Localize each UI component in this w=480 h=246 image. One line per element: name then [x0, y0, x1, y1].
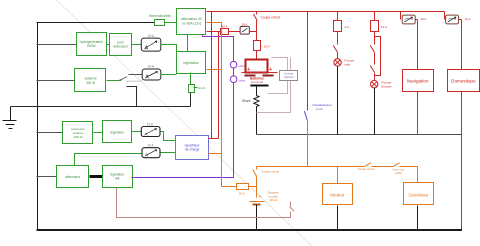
svg-text:douche: douche: [382, 84, 392, 88]
voltmeter V2: [230, 76, 246, 83]
charger box: [57, 166, 89, 188]
svg-text:10 A: 10 A: [465, 17, 471, 21]
fuse 10A battery: [254, 41, 270, 61]
svg-text:40 A: 40 A: [221, 24, 227, 28]
relay double switch shower pump: [370, 32, 380, 81]
svg-text:90 ah: 90 ah: [270, 198, 278, 202]
wire domestique negative: [461, 92, 463, 230]
ground: [3, 107, 17, 129]
rectifier box: [110, 34, 132, 56]
panel meter navigation: [401, 12, 427, 24]
fuse 10A shower pump: [371, 12, 388, 32]
voltmeter V1: [230, 61, 246, 68]
wire ground bus: [11, 87, 191, 107]
wire monitor sense line (pink): [117, 188, 295, 218]
switch coupe-circuit engine battery: [253, 167, 280, 198]
battery service bank: [242, 60, 278, 88]
wire black feed charger: [37, 176, 57, 178]
svg-text:wifi: wifi: [115, 177, 120, 181]
moteur box: [323, 184, 353, 205]
wire alternator to regulator: [187, 35, 189, 52]
svg-text:régulateur: régulateur: [183, 61, 199, 65]
switch inter guindeau: [393, 163, 405, 175]
wire moteur negative: [337, 206, 339, 230]
svg-text:redresseur: redresseur: [113, 45, 129, 49]
svg-text:à clé: à clé: [316, 107, 323, 111]
svg-text:Navigation: Navigation: [407, 79, 429, 84]
svg-text:voltm.: voltm.: [239, 79, 247, 83]
shunt resistor: [242, 86, 259, 135]
svg-text:200 W: 200 W: [74, 135, 83, 139]
wire A1 to regulator: [161, 45, 177, 52]
svg-text:de charge: de charge: [185, 148, 200, 152]
panel meter domestique: [445, 12, 471, 24]
wire negative bus: [257, 134, 462, 136]
svg-text:10 A: 10 A: [264, 44, 270, 48]
lamp pompe de cale: [334, 59, 355, 67]
watermark diagonal: [57, 0, 312, 246]
wire moteur drop: [337, 167, 339, 184]
ammeter A3: [141, 122, 160, 136]
svg-text:alternateur: alternateur: [65, 175, 81, 179]
wire orange engine bus: [257, 167, 418, 183]
wire orange alternator to engine battery: [207, 23, 222, 187]
wire green riser charger to A4: [75, 154, 143, 166]
svg-text:Domestique: Domestique: [451, 79, 476, 84]
wire rectifier to ammeter A1: [132, 44, 142, 46]
ammeter A2: [142, 65, 161, 81]
svg-text:10 A: 10 A: [147, 144, 154, 148]
svg-text:Coupe-circuit: Coupe-circuit: [262, 169, 280, 173]
alternator U1: [177, 9, 206, 35]
shunt (green) below regulator: [189, 73, 206, 107]
svg-text:600W: 600W: [87, 44, 95, 48]
switch wind turbine: [107, 75, 143, 83]
fuse 50A engine: [222, 184, 257, 196]
svg-text:tout ou rien: tout ou rien: [127, 79, 142, 83]
wind turbine box: [75, 69, 106, 92]
svg-text:40 A: 40 A: [148, 65, 155, 69]
wire lamp2 to negative bus: [374, 88, 376, 135]
svg-text:+: +: [259, 194, 262, 199]
svg-text:Coupe circuit: Coupe circuit: [358, 167, 375, 171]
fuse thermofusible: [149, 14, 171, 25]
wire hydro to rectifier: [107, 44, 110, 46]
wire battery positive drop: [256, 21, 258, 41]
switch coupe-circuit service: [253, 12, 280, 21]
regulator box (top): [177, 52, 206, 74]
svg-text:Moteur: Moteur: [330, 193, 345, 198]
fuse 40A: [221, 24, 241, 34]
ammeter A4: [142, 144, 160, 158]
thick link charger to monitor: [90, 175, 103, 178]
bornier batterie box: [257, 58, 298, 113]
wire solar to regulator2: [94, 132, 103, 134]
svg-text:50 A: 50 A: [239, 192, 245, 196]
solar regulator box: [103, 121, 132, 143]
watt meter box: [240, 23, 256, 35]
solar panel box: [63, 122, 93, 144]
battery engine: [250, 191, 280, 205]
switch parallelisation: [304, 12, 332, 167]
wire navigation negative: [417, 92, 419, 135]
wire red riser bus to distributor: [209, 12, 219, 139]
fuse 4A pump: [334, 12, 349, 32]
svg-text:Coupe-circuit: Coupe-circuit: [261, 15, 281, 19]
svg-text:300 W: 300 W: [86, 81, 95, 85]
wire to navigation box: [417, 20, 419, 70]
hydrogenerator box: [77, 33, 107, 56]
navigation box: [403, 70, 434, 92]
wire fuse to alternator: [165, 22, 177, 24]
svg-text:Shunt: Shunt: [242, 99, 250, 103]
svg-text:cale: cale: [345, 63, 351, 67]
svg-text:batterie: batterie: [284, 75, 294, 79]
wire reg2 to ammeter A3: [132, 131, 142, 133]
wire A3 to distributor box: [161, 132, 176, 141]
distributor (repartiteur) box U2: [176, 136, 209, 160]
svg-text:thermofusible: thermofusible: [149, 14, 171, 18]
wire A2 to regulator: [161, 74, 177, 76]
wire guindeau negative: [417, 206, 419, 230]
guindeau box: [404, 183, 434, 205]
ammeter A1: [141, 34, 161, 52]
wire black feed wind turbine: [37, 80, 75, 82]
svg-text:Guindeau: Guindeau: [408, 192, 428, 197]
svg-text:alternateur 40: alternateur 40: [181, 17, 202, 21]
wire black feed solar: [37, 132, 63, 134]
svg-text:10 A: 10 A: [381, 25, 387, 29]
switch pompe cale: [333, 32, 337, 59]
svg-text:répartiteur: répartiteur: [185, 143, 201, 147]
lamp pompe douche: [371, 81, 392, 89]
svg-text:10 A: 10 A: [421, 17, 427, 21]
wire black feed hydro: [37, 44, 77, 46]
domestique box: [448, 70, 480, 92]
svg-text:10 A: 10 A: [147, 122, 154, 126]
wire ground loop frame (left border, top, bottom): [37, 23, 463, 231]
wire purple voltmeter line: [132, 35, 234, 178]
svg-text:shunt: shunt: [198, 86, 206, 90]
svg-text:+: +: [269, 67, 272, 73]
svg-text:100A: 100A: [395, 171, 402, 175]
svg-text:ou 60A (12v): ou 60A (12v): [182, 22, 201, 26]
wire A4 to distributor box: [161, 152, 176, 154]
battery monitor box: [103, 166, 133, 188]
svg-text:4 A: 4 A: [345, 25, 349, 29]
svg-text:40 A: 40 A: [148, 34, 155, 38]
wire red bus top: [207, 11, 445, 13]
svg-text:régulateur: régulateur: [110, 130, 125, 134]
switch coupe circuit engine bus: [358, 163, 375, 171]
wire engine battery negative: [256, 205, 258, 230]
battery negative bar: [251, 85, 269, 87]
wire red alternator charge line: [207, 31, 221, 33]
wire lamp1 to negative bus: [337, 67, 339, 135]
svg-text:+: +: [247, 67, 250, 73]
wire to domestique box: [461, 20, 463, 70]
